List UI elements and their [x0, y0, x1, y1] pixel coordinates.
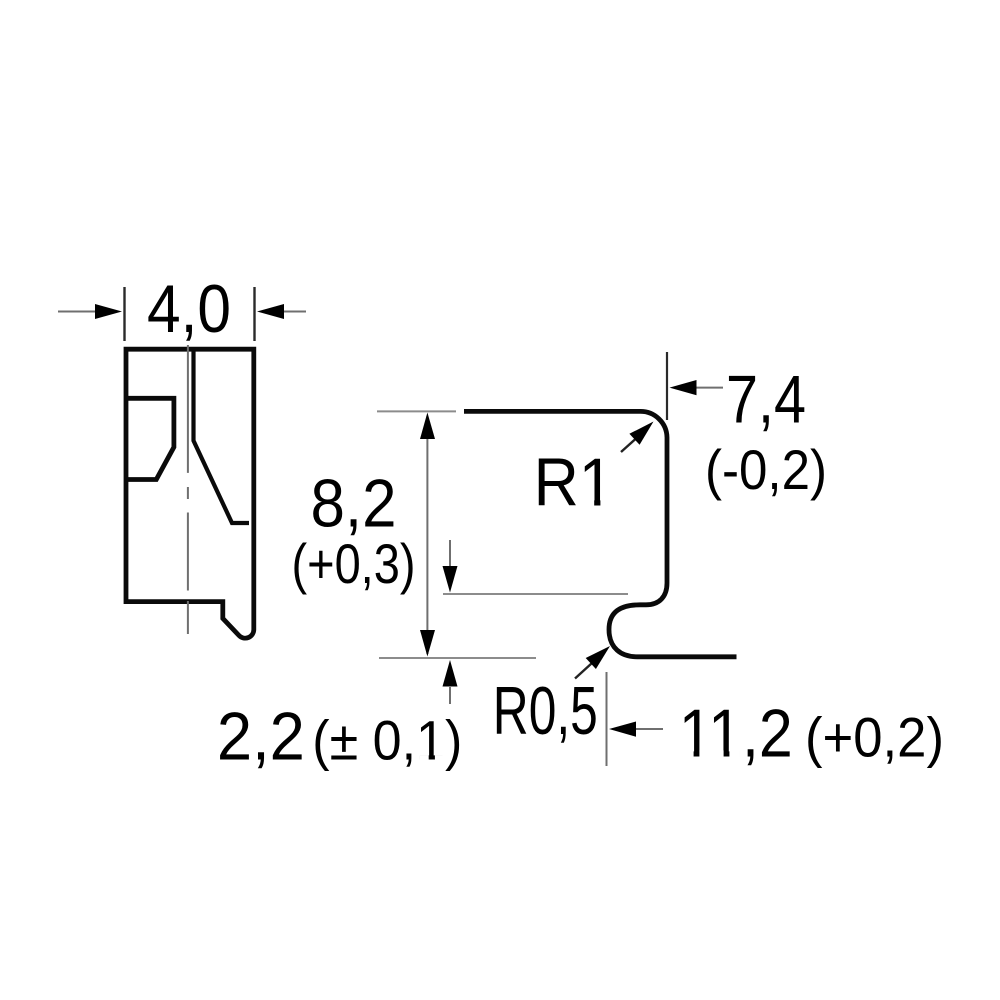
dim 4,0 extension line left [123, 287, 125, 341]
left view center line [187, 345, 189, 634]
svg-text:R1: R1 [534, 445, 614, 521]
dim 4,0 extension line right [253, 287, 255, 341]
dim 2,2 down arrow [449, 540, 451, 567]
svg-text:(+0,3): (+0,3) [292, 532, 416, 595]
left view tongue line [194, 349, 250, 523]
dim 7,4 arrow [696, 387, 723, 389]
dim 2,2 up arrow [449, 687, 451, 704]
svg-text:7,4: 7,4 [726, 361, 806, 437]
R1 leader [621, 439, 636, 453]
dim 8,2 line [426, 416, 428, 654]
svg-text:R0,5: R0,5 [493, 673, 598, 749]
dim 11,2 arrow [634, 728, 663, 730]
svg-text:11,2: 11,2 [679, 696, 793, 772]
top edge extension (thin) [377, 410, 456, 412]
dim 4,0 right arrow [283, 311, 306, 313]
svg-text:(-0,2): (-0,2) [705, 438, 827, 501]
dim 7,4 extension line [666, 352, 668, 420]
dim 4,0 left arrow [58, 311, 96, 313]
right profile outline [464, 411, 737, 656]
inner step line (thin) [443, 593, 628, 595]
dim 8,2 top arrow [420, 413, 435, 440]
svg-text:2,2: 2,2 [217, 698, 305, 774]
svg-text:(+0,2): (+0,2) [805, 706, 944, 769]
R0,5 leader [575, 663, 592, 679]
left view outer outline [126, 349, 254, 638]
svg-text:(± 0,1): (± 0,1) [312, 709, 462, 772]
dim 8,2 bottom arrow [420, 630, 435, 657]
dim 11,2 extension line [606, 672, 608, 766]
bottom edge extension (thin) [379, 657, 536, 659]
svg-text:4,0: 4,0 [147, 271, 231, 347]
left view inner notch [126, 398, 174, 479]
svg-text:8,2: 8,2 [311, 466, 397, 542]
erase foot serifs of digit 1 glyphs [420, 500, 740, 761]
